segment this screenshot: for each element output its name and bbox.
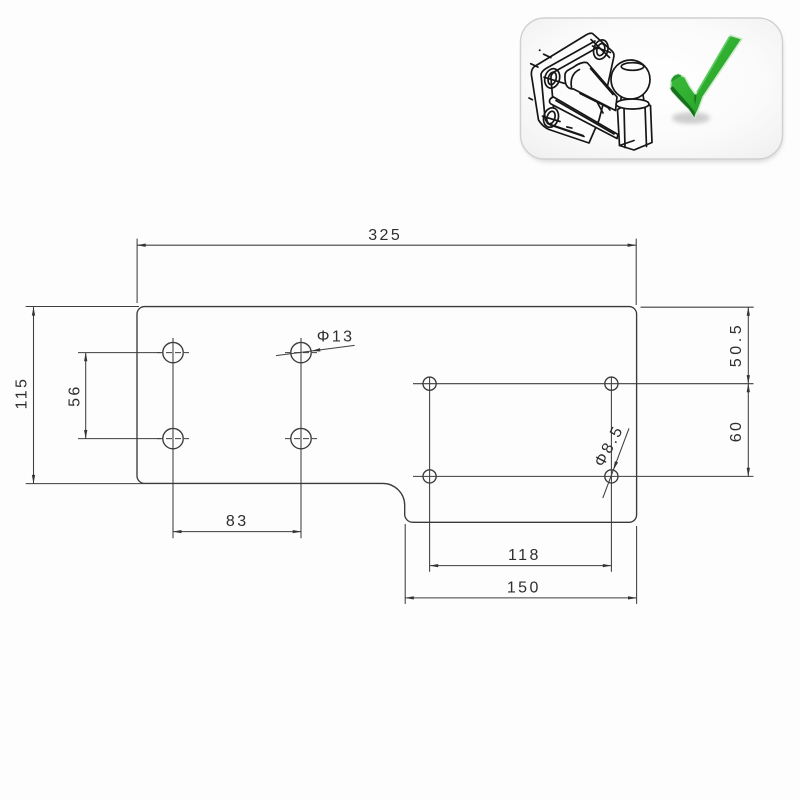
check main: [670, 35, 742, 118]
dim 115 line: [33, 307, 35, 484]
dim 56 line: [85, 353, 87, 439]
hole R3 (phi8.5): [423, 470, 436, 483]
H1 centermark diagonal: [593, 46, 611, 53]
leader phi13 arrow: [311, 348, 320, 351]
flange bottom edge inner: [548, 124, 584, 136]
row line right group top: [413, 383, 754, 385]
shank box: [618, 104, 653, 151]
check dark bevel lower-left: [670, 86, 695, 118]
plate outline: [137, 307, 637, 523]
flange front face edge: [551, 48, 598, 109]
centerline vertical right col A: [429, 377, 431, 572]
ext 325 right: [635, 239, 637, 305]
blade inner bottom edge: [580, 94, 608, 108]
centerline vertical left col B: [300, 338, 302, 538]
check crease below V: [694, 94, 696, 104]
hole R1 (phi8.5): [423, 377, 436, 390]
hole L3 bottom-left (phi13): [163, 428, 183, 448]
tick mark t2: [531, 64, 538, 67]
centerline vertical left col A: [172, 338, 174, 538]
bolt hole H1: [591, 38, 610, 61]
hole L2 top-right (phi13): [291, 342, 311, 362]
row line right group bottom: [413, 475, 754, 477]
dim 325 line: [137, 244, 636, 246]
ball top flat ellipse: [621, 63, 643, 71]
tongue hook inner curve: [571, 70, 579, 88]
H2 centermark diagonal: [544, 77, 565, 83]
tick dot t5: [539, 49, 541, 51]
V rib hidden lines: [596, 100, 603, 113]
flange thickness edge top-left: [541, 41, 595, 137]
tick mark t4: [567, 127, 572, 128]
badge shadow: [522, 22, 783, 162]
shank chamfer right: [645, 105, 647, 147]
hole dash L1: [157, 352, 189, 354]
shank chamfer left: [624, 108, 625, 148]
svg-text:Φ13: Φ13: [317, 328, 355, 345]
tongue blade gusset: [565, 62, 617, 110]
flange plate body: [531, 33, 614, 143]
neck left line: [620, 95, 623, 100]
lower wedge inner line: [556, 101, 614, 135]
lower wedge gusset: [550, 97, 618, 139]
svg-text:115: 115: [14, 377, 31, 410]
svg-text:150: 150: [507, 579, 541, 596]
badge body: [521, 18, 783, 159]
svg-text:118: 118: [508, 547, 541, 564]
svg-text:83: 83: [226, 513, 249, 530]
hole dash L2: [285, 352, 317, 354]
bolt hole H3: [541, 106, 560, 129]
neck right line: [642, 95, 645, 100]
centerline vertical right col B: [610, 377, 612, 572]
svg-text:50.5: 50.5: [728, 322, 745, 368]
ext 150 right: [636, 526, 638, 604]
leader phi8.5 arrow: [613, 461, 618, 470]
ext 56 bottom: [78, 438, 161, 440]
blade inner top edge: [591, 69, 614, 95]
tick mark t1: [544, 54, 551, 57]
dim 150 line: [405, 597, 636, 599]
hole R4 (phi8.5): [605, 470, 618, 483]
tick mark t3: [529, 98, 532, 100]
svg-text:325: 325: [368, 227, 402, 244]
shank bottom facet: [620, 141, 635, 146]
hole L1 top-left (phi13): [163, 342, 183, 362]
ext 150 left: [404, 524, 406, 604]
hole dash L3: [157, 438, 189, 440]
dim 83 line: [173, 531, 301, 533]
check edge highlight: [697, 37, 730, 93]
bolt hole H2: [542, 67, 561, 90]
hole dash L4: [285, 438, 317, 440]
dim 50.5 line: [747, 307, 749, 384]
V rib hidden line b: [604, 103, 610, 110]
svg-text:60: 60: [728, 420, 745, 443]
dim 118 line: [430, 565, 612, 567]
hole R2 (phi8.5): [605, 377, 618, 390]
check flap top face: [671, 74, 682, 82]
ext 115 bottom: [26, 483, 144, 485]
ext 325 left: [136, 239, 138, 303]
ext 56 top: [78, 352, 161, 354]
H3 centermark diagonal: [543, 116, 561, 121]
collar flare: [616, 99, 649, 109]
tow ball: [611, 60, 650, 99]
dim 60 line: [747, 384, 749, 477]
hole L4 bottom-right (phi13): [291, 428, 311, 448]
check shadow: [672, 112, 710, 124]
leader phi8.5: [603, 428, 629, 498]
ext 115 top: [26, 306, 139, 308]
svg-text:56: 56: [67, 384, 84, 407]
leader phi13: [276, 345, 355, 355]
flange thickness edge top-right: [591, 40, 610, 58]
ext 50.5 top: [641, 306, 754, 308]
